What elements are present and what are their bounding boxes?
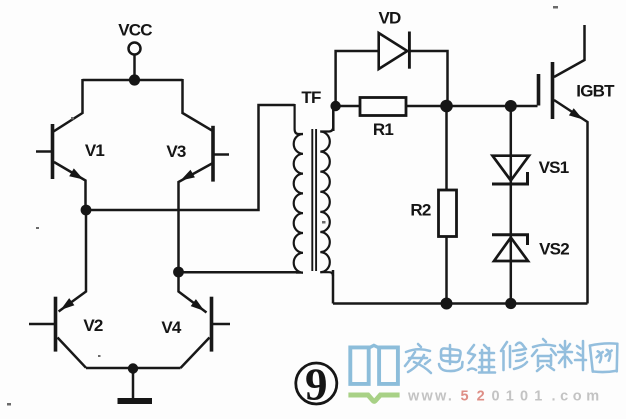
svg-text:V2: V2	[83, 316, 103, 335]
svg-text:R2: R2	[410, 201, 430, 220]
svg-text:V3: V3	[166, 142, 186, 161]
svg-text:VS2: VS2	[539, 240, 569, 259]
svg-text:IGBT: IGBT	[576, 82, 615, 101]
svg-text:52: 52	[461, 389, 493, 405]
svg-text:0101: 0101	[492, 389, 549, 405]
svg-text:V1: V1	[85, 141, 105, 160]
svg-text:.com: .com	[552, 389, 604, 405]
svg-text:V4: V4	[161, 318, 182, 337]
svg-text:VCC: VCC	[118, 21, 152, 40]
svg-text:VS1: VS1	[539, 158, 569, 177]
svg-text:www.: www.	[407, 389, 454, 405]
svg-text:9: 9	[305, 360, 328, 410]
svg-text:VD: VD	[378, 9, 401, 28]
svg-text:R1: R1	[373, 120, 393, 139]
svg-text:TF: TF	[301, 88, 321, 107]
